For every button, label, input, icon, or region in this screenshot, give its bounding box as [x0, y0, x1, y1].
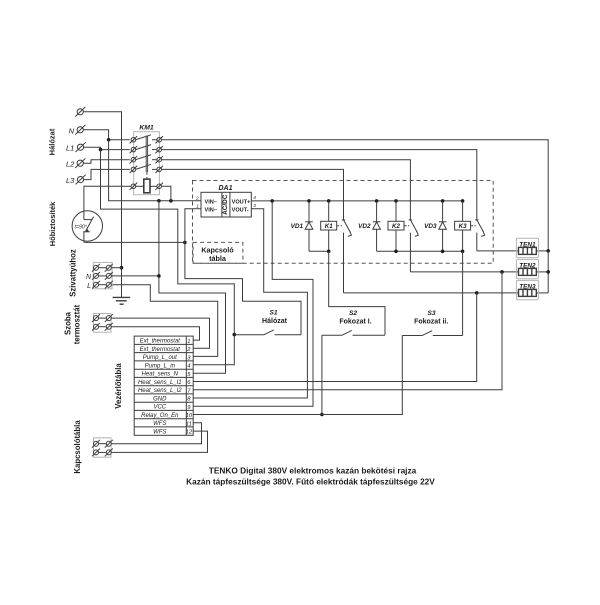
- svg-text:Relay_On_En: Relay_On_En: [141, 413, 179, 419]
- svg-text:VOUT-: VOUT-: [232, 207, 249, 213]
- wire L2 feed: [83, 160, 130, 164]
- wire pin2 to room thermostat row1: [111, 318, 210, 348]
- svg-text:L: L: [87, 283, 91, 290]
- svg-text:Kapcsolótábla: Kapcsolótábla: [73, 420, 82, 474]
- svg-text:Heat_sens_N: Heat_sens_N: [142, 372, 179, 378]
- svg-text:VD2: VD2: [358, 223, 371, 230]
- wire TEN3 row: [344, 292, 519, 294]
- junction pump N tap: [157, 274, 161, 278]
- svg-text:Fokozat ii.: Fokozat ii.: [414, 318, 448, 325]
- svg-text:WFS: WFS: [153, 421, 166, 427]
- link K2 to contact dashed: [405, 225, 410, 227]
- junction K1 top: [327, 199, 331, 203]
- svg-text:TENKO Digital 380V elektromos: TENKO Digital 380V elektromos kazán bekö…: [209, 466, 417, 476]
- junction K3 top: [461, 199, 465, 203]
- junction VCC tap: [270, 199, 274, 203]
- wire TEN2 tap to pin7 row: [193, 272, 502, 390]
- svg-text:VIN–: VIN–: [205, 199, 217, 205]
- svg-text:AC/DC: AC/DC: [222, 194, 229, 215]
- svg-text:N: N: [69, 126, 75, 135]
- junction VD3 bottom: [441, 250, 445, 254]
- svg-text:Heat_sens_L_I1: Heat_sens_L_I1: [138, 380, 182, 386]
- junction TEN1 right bus: [546, 249, 550, 253]
- KM1 pole 2 terminals and blade: [130, 145, 163, 154]
- wire N chain to pin5: [159, 276, 226, 373]
- KM1 mechanical linkage: [146, 136, 147, 180]
- contact K2: [409, 220, 419, 272]
- link K3 to contact dashed: [471, 225, 476, 227]
- junction L1 row2: [99, 148, 103, 152]
- svg-text:Hálózat: Hálózat: [262, 318, 288, 325]
- link K1 to contact dashed: [337, 225, 342, 227]
- junction N row1: [107, 138, 111, 142]
- svg-text:L1: L1: [66, 144, 74, 153]
- wire KM1 row2 output to contact K3: [161, 150, 477, 220]
- wire pin1 to room thermostat row2: [111, 327, 200, 340]
- dashed enclosure relay board: [193, 181, 494, 264]
- wire K3 bottom to S3 right: [462, 251, 464, 335]
- relay coil K3: [455, 201, 471, 251]
- junction VIN1 bus: [183, 241, 187, 245]
- node PE input terminal: [75, 107, 85, 117]
- svg-text:Ext_thermostat: Ext_thermostat: [140, 347, 181, 353]
- converter DA1: [195, 185, 256, 217]
- junction VD2 top: [375, 199, 379, 203]
- svg-text:K2: K2: [392, 223, 400, 230]
- junction S2 relay enable: [320, 413, 324, 417]
- svg-text:Heat_sens_L_I2: Heat_sens_L_I2: [138, 388, 182, 394]
- pump terminal block Szivattyuhoz: [86, 262, 159, 289]
- wire pin3 to pump L row: [112, 285, 218, 357]
- wire VCC chain to pin9: [193, 201, 313, 406]
- svg-text:Szoba: Szoba: [64, 311, 73, 335]
- junction K3 bottom: [461, 250, 465, 254]
- switch S2: [322, 310, 385, 336]
- thermal fuse t=90: [72, 211, 102, 243]
- svg-text:L3: L3: [66, 176, 75, 185]
- svg-text:VD3: VD3: [424, 223, 437, 230]
- svg-text:Hálózat: Hálózat: [48, 128, 57, 155]
- wire TEN3 tap to pin6 row: [193, 293, 477, 382]
- KM1 pole 4 terminals and blade: [130, 164, 163, 173]
- node L3 input terminal: [76, 175, 86, 185]
- wire TEN1 row: [477, 250, 519, 252]
- node L2 input terminal: [75, 158, 85, 168]
- node L1 input terminal: [76, 142, 86, 152]
- wire N feed: [83, 130, 130, 140]
- wire KM1 coil right to VIN bus: [161, 186, 171, 201]
- wire thermostat bus to DA1 VIN1 node: [84, 241, 185, 243]
- ground earth symbol: [113, 297, 131, 304]
- svg-text:termosztát: termosztát: [73, 304, 82, 344]
- heater TEN1: [516, 238, 538, 257]
- svg-text:11: 11: [186, 421, 192, 427]
- svg-text:10: 10: [186, 413, 193, 419]
- wire pin11 to switchboard row1: [111, 423, 202, 444]
- junction N-bus KM1right vertical: [157, 199, 161, 203]
- junction S1 left on L1 chain: [233, 333, 237, 337]
- contact K1: [342, 220, 352, 293]
- relay coil K1: [321, 201, 337, 251]
- svg-text:1: 1: [187, 339, 190, 345]
- junction TEN2 sense tap: [500, 270, 504, 274]
- wire KM1 right vertical to pump N: [158, 201, 160, 276]
- junction K2 top: [394, 199, 398, 203]
- KM1 outline box: [134, 132, 160, 195]
- wire PE down to earth: [121, 268, 123, 298]
- wire K1 bottom to S2 right: [329, 251, 385, 335]
- contactor KM1: [130, 124, 163, 194]
- svg-text:K1: K1: [325, 223, 333, 230]
- wire KM1 coil left to thermal fuse: [84, 186, 131, 211]
- svg-text:t=90°: t=90°: [75, 224, 87, 230]
- wire PE feed to vertical: [83, 112, 121, 268]
- svg-text:KM1: KM1: [139, 124, 154, 131]
- junction TEN3 sense tap: [475, 291, 479, 295]
- wire ch2-ch3 bottom bus: [377, 250, 463, 252]
- svg-text:VIN–: VIN–: [205, 207, 217, 213]
- contact K3: [475, 220, 485, 251]
- room thermostat terminal block: [92, 314, 113, 333]
- relay coil K2: [388, 201, 404, 251]
- svg-text:12: 12: [186, 430, 193, 436]
- wire right bus TEN1 to TEN3: [547, 251, 549, 293]
- wire S2 left to pin10 row: [321, 335, 323, 414]
- svg-text:tábla: tábla: [209, 254, 227, 263]
- wire ch1 bottom bus: [309, 250, 329, 252]
- control board terminal table Vezerlotabla: [134, 336, 193, 436]
- svg-text:S3: S3: [427, 310, 435, 317]
- junction K2 bottom: [394, 250, 398, 254]
- junction K1 bottom: [327, 250, 331, 254]
- svg-text:K3: K3: [459, 223, 467, 230]
- svg-text:2: 2: [195, 196, 199, 202]
- svg-text:VD1: VD1: [291, 223, 304, 230]
- switch S3: [402, 310, 462, 336]
- svg-text:Ext_thermostat: Ext_thermostat: [140, 339, 181, 345]
- wire pin12 to switchboard row2: [111, 431, 208, 452]
- svg-text:VOUT+: VOUT+: [232, 199, 252, 205]
- junction PE-pump row1: [120, 266, 124, 270]
- svg-text:S2: S2: [349, 310, 357, 317]
- heater TEN2: [516, 259, 538, 278]
- wire L1 chain to pin4 via S1 node: [101, 150, 235, 365]
- wire KM1 row3 output to contact K2: [161, 160, 410, 220]
- svg-text:S1: S1: [269, 310, 277, 317]
- switchboard terminal block Kapcsolotabla: [92, 438, 113, 457]
- wire TEN2 row: [410, 271, 518, 273]
- wire pin10 row Relay_On_En: [193, 336, 402, 415]
- wire N down to DA1 VIN bus: [109, 140, 201, 201]
- svg-text:Hőbiztosíték: Hőbiztosíték: [48, 201, 57, 246]
- wire KM1 row1 output to right bus: [161, 140, 548, 251]
- KM1 pole 3 terminals and blade: [130, 155, 163, 164]
- svg-text:L2: L2: [66, 160, 75, 169]
- svg-text:Kazán tápfeszültsége 380V. Fűt: Kazán tápfeszültsége 380V. Fűtő elektród…: [186, 477, 435, 487]
- svg-text:Vezérlőtábla: Vezérlőtábla: [114, 363, 123, 409]
- svg-text:GND: GND: [153, 396, 167, 402]
- svg-text:WFS: WFS: [153, 429, 166, 435]
- wire DA1 pin4 +22V bus: [251, 200, 462, 202]
- svg-text:4: 4: [187, 364, 190, 370]
- junction TEN2 right bus: [546, 270, 550, 274]
- wire L1 feed: [84, 147, 130, 149]
- junction N-bus coil wire: [169, 199, 173, 203]
- svg-text:DA1: DA1: [218, 185, 232, 192]
- junction VD1 top: [307, 199, 311, 203]
- diode VD2: [358, 201, 380, 251]
- KM1 pole 1 terminals and blade: [130, 135, 163, 144]
- node N input terminal: [75, 125, 85, 135]
- svg-text:Pump_L_in: Pump_L_in: [145, 363, 176, 369]
- heater TEN3: [516, 280, 538, 299]
- svg-text:4: 4: [253, 195, 256, 201]
- wire L3 feed: [84, 169, 130, 179]
- diode VD3: [424, 201, 446, 251]
- diode VD1: [291, 201, 313, 251]
- junction VD3 top: [441, 199, 445, 203]
- KM1 coil terminals: [130, 183, 163, 190]
- svg-text:Pump_L_out: Pump_L_out: [143, 355, 177, 361]
- dashed box Kapcsolo tabla: [193, 242, 243, 263]
- svg-text:Fokozat I.: Fokozat I.: [339, 318, 371, 325]
- switch S1: [234, 310, 301, 335]
- wire KM1 row4 output to contact K1: [161, 169, 344, 220]
- DA1 box: [201, 192, 251, 217]
- wire DA1 pin1 to VIN1 junction and S1 right chain: [185, 209, 301, 335]
- svg-text:VCC: VCC: [153, 405, 166, 411]
- wire DA1 pin3 VOUT- to GND pin8: [193, 209, 307, 398]
- svg-text:Szivattyúhoz: Szivattyúhoz: [69, 249, 78, 297]
- KM1 coil: [144, 179, 150, 193]
